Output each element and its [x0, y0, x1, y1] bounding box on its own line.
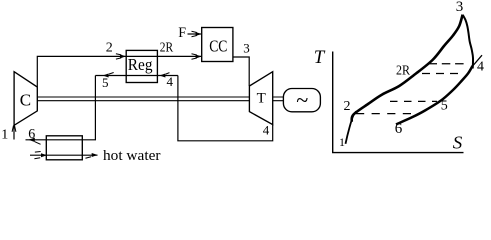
svg-text:4: 4 [263, 123, 270, 138]
wire 1: air inlet [13, 126, 15, 140]
axis T (vertical) and s (horizontal) [333, 52, 464, 153]
svg-text:6: 6 [395, 121, 403, 137]
wire 5: Reg to water heater [26, 76, 96, 140]
shaft C-T double line [37, 97, 249, 101]
svg-text:F: F [178, 25, 186, 41]
arrowhead water inlet with barbs [41, 153, 47, 157]
wire 4: turbine exhaust to Reg [178, 76, 273, 141]
arrowhead 6 exhaust with barb [28, 138, 35, 142]
svg-text:4: 4 [477, 60, 484, 75]
svg-text:S: S [453, 133, 463, 153]
svg-text:C: C [20, 91, 31, 110]
arrowhead 4 into Reg with barb [159, 74, 165, 78]
svg-text:T: T [257, 90, 266, 106]
svg-text:1: 1 [1, 128, 8, 143]
T-s diagram [333, 15, 482, 153]
wire 3: CC to turbine [233, 57, 249, 86]
generator body [283, 89, 320, 112]
wire: cooling water line [30, 154, 98, 156]
dashed line 4 to curve 2-3 [429, 63, 468, 65]
svg-text:~: ~ [296, 88, 308, 114]
turbine T body [249, 72, 272, 125]
arrowhead water outlet hot water with barb [92, 153, 98, 157]
expansion 3-4 [463, 15, 473, 69]
arrowhead 2 into Reg [120, 54, 126, 58]
dashed line 2R to curve 4-5 [422, 73, 460, 75]
wire F: fuel into CC [188, 33, 202, 35]
process line 1-2 compression [346, 111, 357, 144]
dashed line 5 to left [390, 100, 437, 102]
svg-text:1: 1 [339, 135, 345, 149]
svg-text:2R: 2R [396, 63, 410, 78]
svg-text:2: 2 [344, 99, 351, 114]
dashed line 2 to curve 5-6 [356, 113, 413, 115]
svg-text:Reg: Reg [128, 55, 153, 74]
tick at point 4 [472, 55, 482, 67]
svg-text:hot water: hot water [103, 148, 161, 164]
svg-text:3: 3 [243, 41, 250, 56]
svg-text:T: T [314, 47, 326, 68]
arrowhead 1 air inlet [12, 125, 14, 131]
arrowhead 5 out of Reg with barb [103, 74, 109, 78]
svg-text:5: 5 [441, 99, 448, 114]
compressor C body [14, 72, 37, 126]
isobar 2-2R-3 heating [352, 15, 463, 122]
svg-text:CC: CC [209, 37, 227, 56]
shaft T-generator double line [273, 97, 284, 101]
hot water heat exchanger box [46, 136, 82, 160]
wire 4-5 through Reg [95, 75, 177, 77]
arrowhead 2R into CC [196, 55, 202, 59]
isobar 4-5-6 cooling [396, 66, 473, 125]
regenerator Reg box [126, 50, 157, 82]
combustion chamber CC box [202, 28, 233, 62]
svg-text:2: 2 [106, 41, 113, 56]
svg-text:6: 6 [28, 127, 35, 142]
wire 2: compressor top to Reg and on to CC [37, 56, 201, 87]
svg-text:4: 4 [167, 74, 174, 89]
arrowhead F into CC [196, 32, 202, 36]
svg-text:2R: 2R [160, 40, 174, 55]
svg-text:3: 3 [456, 0, 464, 15]
svg-text:5: 5 [102, 75, 109, 90]
